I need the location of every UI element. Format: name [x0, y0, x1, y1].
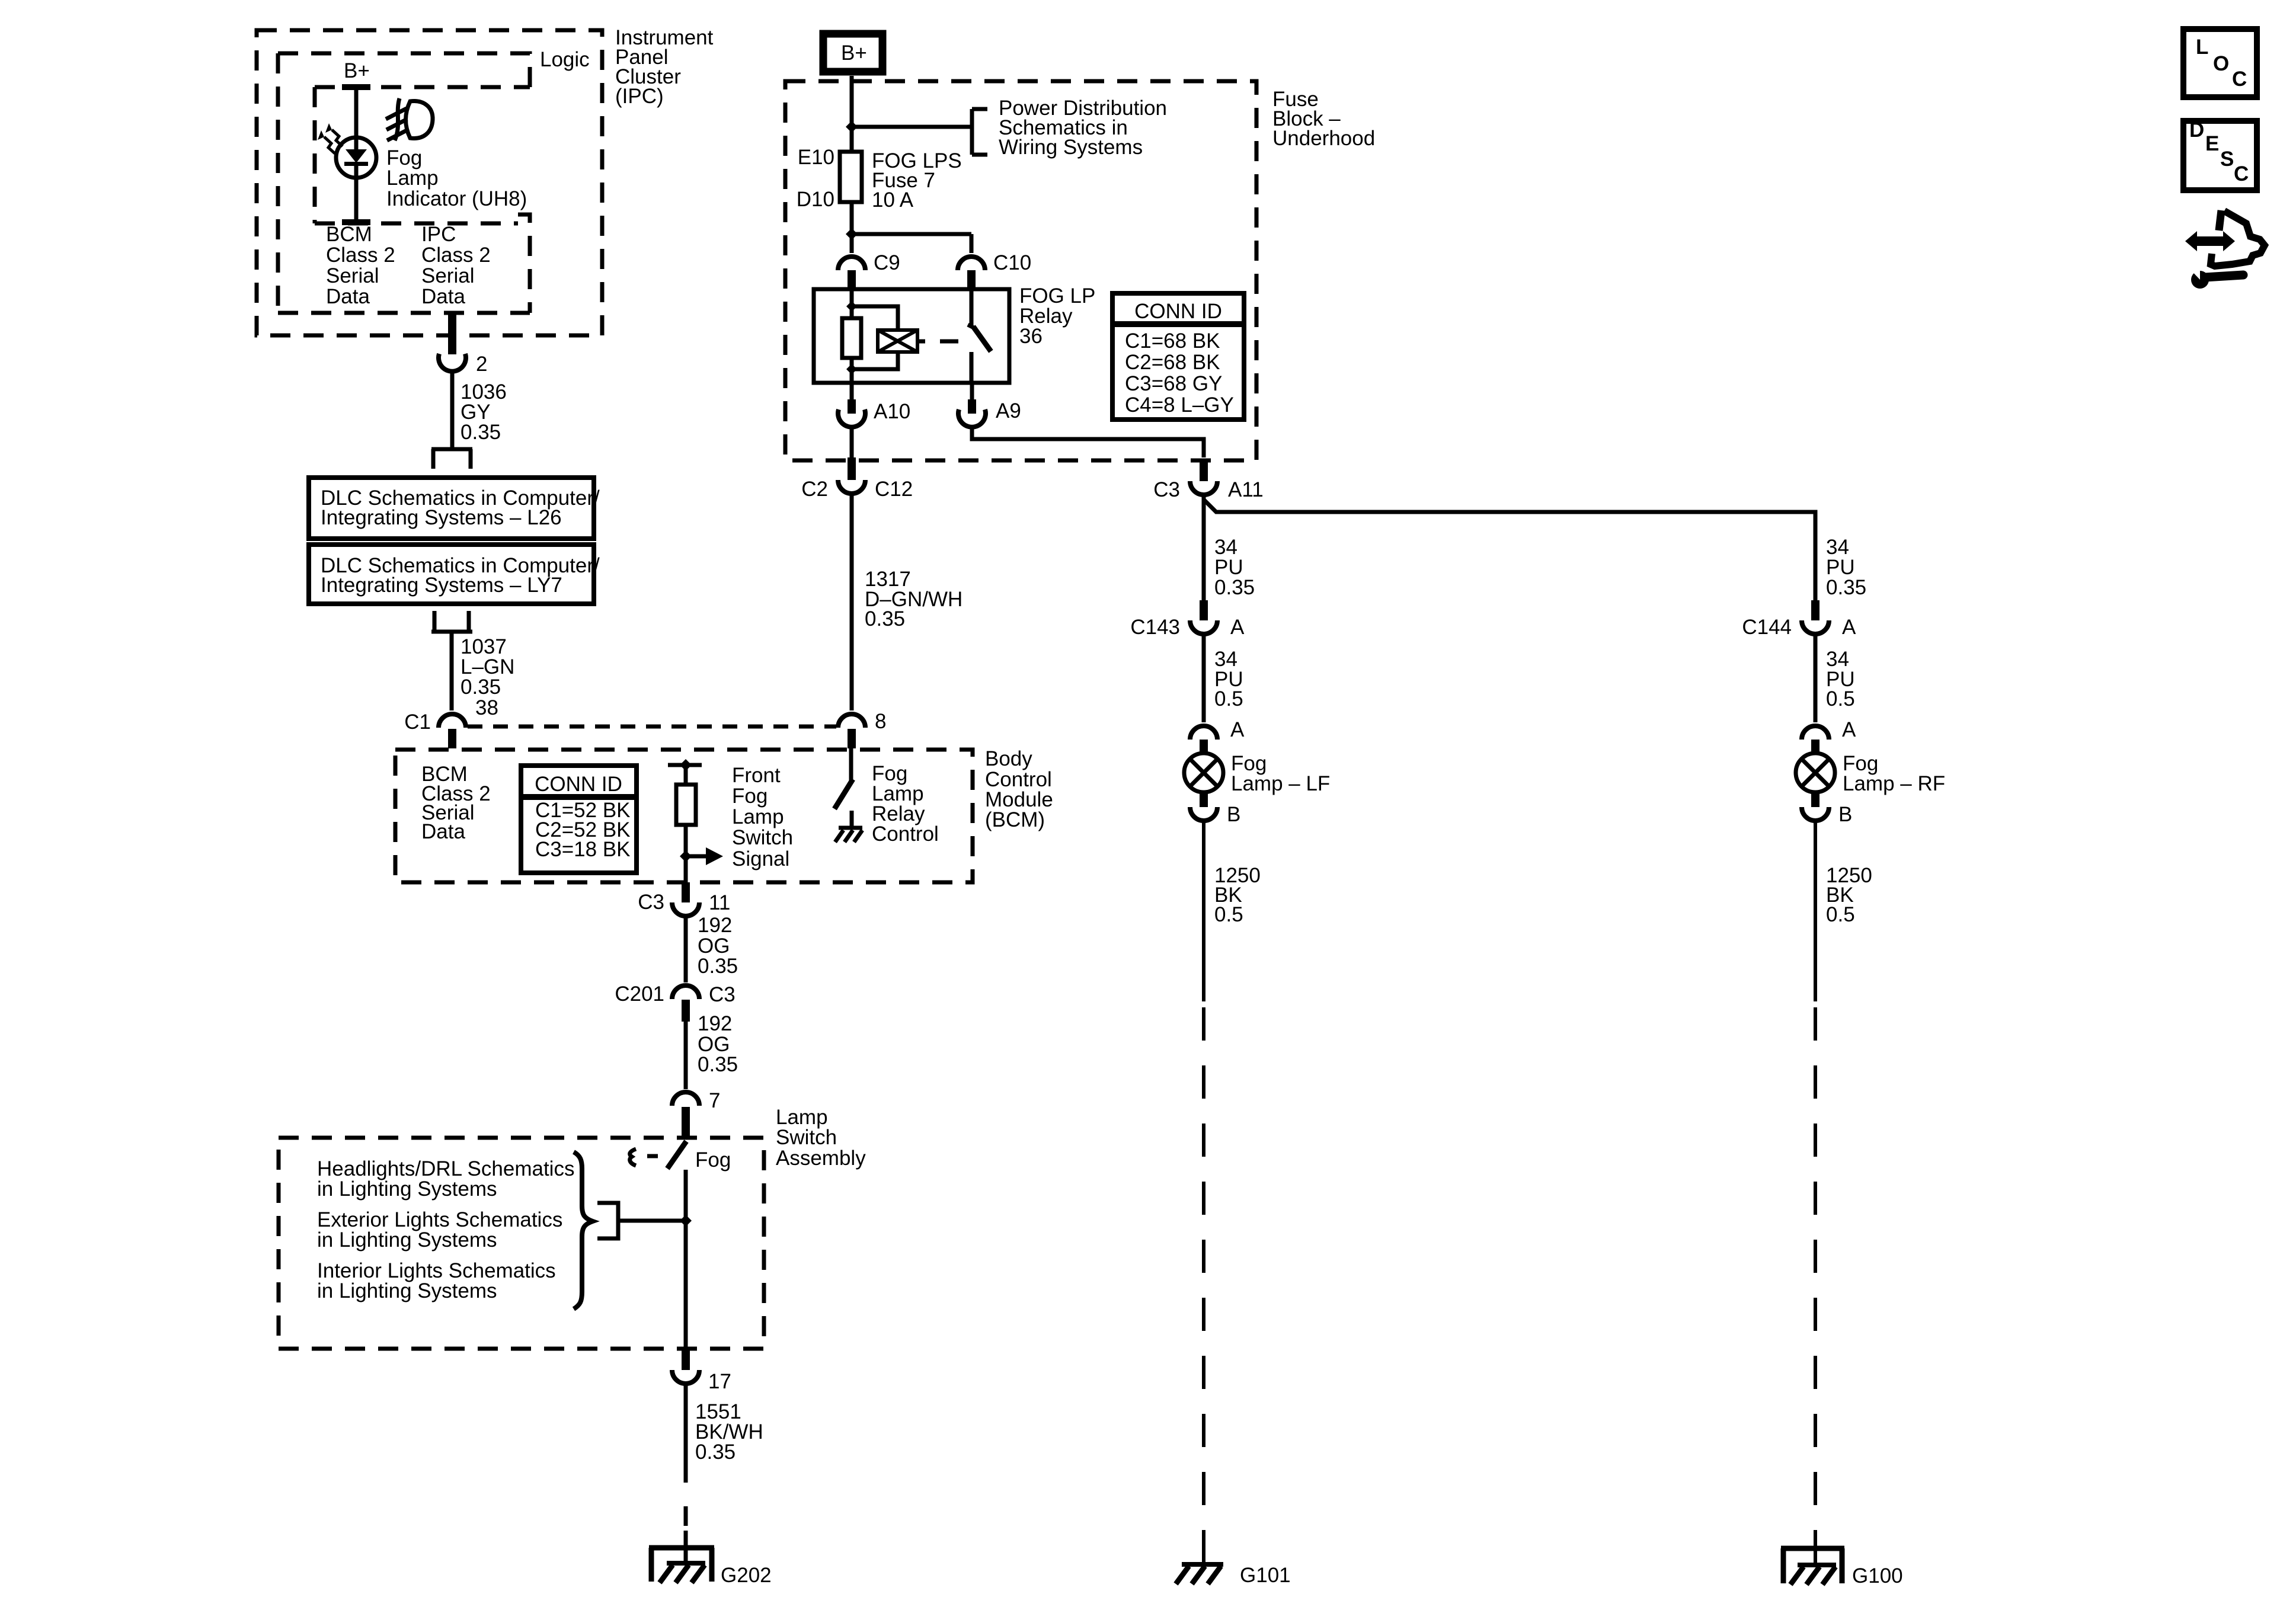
svg-text:C144: C144 [1742, 616, 1792, 639]
svg-text:11: 11 [709, 891, 730, 914]
svg-text:Data: Data [421, 285, 465, 308]
svg-text:Class 2: Class 2 [326, 244, 395, 267]
svg-text:(IPC): (IPC) [615, 85, 664, 108]
svg-text:Signal: Signal [732, 847, 789, 870]
svg-text:0.35: 0.35 [461, 676, 501, 699]
svg-text:in Lighting Systems: in Lighting Systems [317, 1177, 497, 1201]
svg-text:2: 2 [476, 353, 487, 376]
svg-text:192: 192 [698, 1012, 732, 1035]
svg-text:B: B [1227, 803, 1240, 826]
svg-text:0.35: 0.35 [461, 421, 501, 444]
svg-text:Data: Data [326, 285, 370, 308]
svg-text:C1: C1 [404, 710, 431, 734]
svg-text:Assembly: Assembly [776, 1147, 866, 1170]
svg-text:Indicator (UH8): Indicator (UH8) [386, 187, 527, 210]
svg-text:A: A [1842, 718, 1856, 741]
svg-text:C3=18 BK: C3=18 BK [535, 838, 631, 861]
svg-text:C: C [2234, 162, 2249, 185]
svg-text:Underhood: Underhood [1272, 127, 1375, 150]
svg-text:A10: A10 [874, 400, 910, 423]
svg-text:IPC: IPC [421, 223, 456, 246]
svg-text:C3: C3 [638, 891, 664, 914]
svg-text:G202: G202 [721, 1564, 772, 1587]
svg-text:Lamp: Lamp [732, 805, 784, 828]
svg-text:Integrating Systems – LY7: Integrating Systems – LY7 [321, 574, 562, 597]
svg-text:0.35: 0.35 [698, 955, 738, 978]
svg-text:Logic: Logic [540, 48, 590, 71]
svg-text:192: 192 [698, 914, 732, 937]
svg-text:0.5: 0.5 [1214, 903, 1243, 926]
svg-text:0.5: 0.5 [1826, 687, 1855, 710]
svg-text:G100: G100 [1852, 1564, 1903, 1587]
svg-text:E: E [2205, 132, 2219, 155]
svg-text:Fog: Fog [732, 785, 768, 808]
svg-text:C2=68 BK: C2=68 BK [1125, 351, 1220, 374]
svg-text:A: A [1230, 616, 1245, 639]
svg-text:Control: Control [872, 822, 939, 846]
svg-text:Body: Body [985, 747, 1032, 770]
svg-text:Data: Data [421, 820, 465, 843]
svg-text:Wiring Systems: Wiring Systems [999, 136, 1143, 159]
svg-text:Switch: Switch [776, 1126, 837, 1149]
svg-text:C4=8 L–GY: C4=8 L–GY [1125, 393, 1234, 417]
svg-text:C3=68 GY: C3=68 GY [1125, 372, 1222, 395]
svg-text:CONN ID: CONN ID [535, 773, 622, 796]
svg-text:Serial: Serial [326, 264, 379, 287]
svg-text:E10: E10 [798, 146, 834, 169]
svg-text:0.35: 0.35 [695, 1441, 736, 1464]
svg-text:C2: C2 [801, 478, 828, 501]
svg-text:7: 7 [709, 1089, 720, 1112]
svg-text:C1=68 BK: C1=68 BK [1125, 329, 1220, 353]
svg-text:C201: C201 [615, 982, 664, 1006]
svg-text:A: A [1230, 718, 1245, 741]
svg-text:C9: C9 [874, 251, 900, 274]
svg-text:0.35: 0.35 [1214, 576, 1255, 599]
svg-text:A: A [1842, 616, 1856, 639]
svg-text:C3: C3 [709, 983, 736, 1006]
svg-text:0.35: 0.35 [865, 607, 905, 630]
svg-text:Integrating Systems – L26: Integrating Systems – L26 [321, 506, 562, 529]
svg-text:CONN ID: CONN ID [1134, 300, 1222, 323]
svg-text:36: 36 [1019, 325, 1043, 348]
svg-text:0.35: 0.35 [698, 1053, 738, 1076]
svg-text:Front: Front [732, 764, 781, 787]
svg-text:(BCM): (BCM) [985, 808, 1045, 831]
svg-text:C12: C12 [875, 478, 913, 501]
svg-text:in Lighting Systems: in Lighting Systems [317, 1279, 497, 1302]
svg-text:C: C [2232, 68, 2247, 91]
svg-text:L: L [2196, 36, 2208, 59]
svg-text:0.5: 0.5 [1214, 687, 1243, 710]
svg-text:C143: C143 [1130, 616, 1180, 639]
svg-text:Lamp – LF: Lamp – LF [1231, 772, 1330, 795]
svg-text:G101: G101 [1240, 1564, 1291, 1587]
svg-text:B: B [1838, 803, 1852, 826]
svg-text:A11: A11 [1228, 478, 1264, 501]
svg-text:BCM: BCM [326, 223, 372, 246]
svg-text:S: S [2220, 148, 2234, 171]
svg-text:8: 8 [875, 710, 886, 733]
svg-text:D10: D10 [797, 188, 834, 211]
svg-text:C3: C3 [1153, 478, 1180, 501]
svg-text:B+: B+ [841, 41, 867, 65]
svg-text:Class 2: Class 2 [421, 244, 491, 267]
svg-text:10 A: 10 A [872, 188, 914, 212]
svg-text:Serial: Serial [421, 264, 474, 287]
svg-text:in Lighting Systems: in Lighting Systems [317, 1228, 497, 1251]
svg-text:Switch: Switch [732, 826, 793, 849]
svg-text:D: D [2189, 119, 2204, 142]
svg-text:0.5: 0.5 [1826, 903, 1855, 926]
svg-text:Fog: Fog [695, 1148, 731, 1172]
svg-text:Lamp – RF: Lamp – RF [1843, 772, 1945, 795]
svg-text:A9: A9 [996, 399, 1021, 422]
svg-text:C10: C10 [993, 251, 1031, 274]
svg-text:17: 17 [708, 1370, 731, 1393]
svg-text:B+: B+ [344, 59, 370, 82]
svg-text:O: O [2213, 52, 2229, 75]
svg-text:0.35: 0.35 [1826, 576, 1866, 599]
svg-text:Lamp: Lamp [386, 167, 439, 190]
svg-text:38: 38 [475, 696, 498, 719]
